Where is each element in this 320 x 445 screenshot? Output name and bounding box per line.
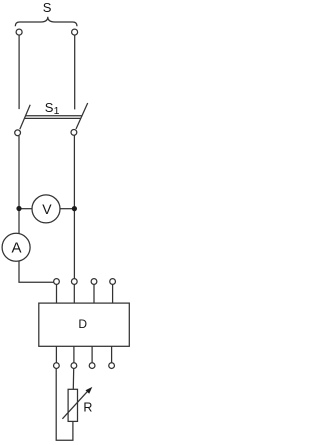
switch S1 mechanical link: [26, 115, 83, 117]
wire left vertical top: [18, 35, 20, 109]
terminal D bottom 2: [71, 363, 77, 369]
ammeter A circle: [2, 233, 30, 261]
switch S1 right pole contact: [71, 130, 77, 136]
wire right vertical top: [74, 35, 76, 109]
wire bottom t1 to rheostat bottom: [56, 368, 73, 440]
box D: [39, 303, 130, 346]
svg-text:S: S: [43, 0, 52, 15]
wire right below switch: [73, 135, 75, 278]
wire t4 to box: [112, 284, 114, 303]
wire box to bottom t1: [55, 346, 57, 363]
terminal D bottom 4: [109, 363, 115, 369]
wire voltmeter branch right: [60, 208, 75, 210]
svg-text:R: R: [83, 401, 92, 415]
switch S1 right pole lever: [76, 103, 88, 129]
wire box to bottom t3: [91, 346, 93, 363]
rheostat arrow shaft: [62, 391, 87, 419]
rheostat arrow head: [86, 387, 93, 394]
terminal D bottom 1: [54, 363, 60, 369]
terminal D bottom 3: [89, 363, 95, 369]
wire below ammeter: [19, 261, 54, 282]
svg-text:1: 1: [54, 105, 60, 117]
svg-text:V: V: [42, 201, 52, 217]
svg-text:S: S: [45, 100, 54, 115]
wire voltmeter branch left: [19, 208, 32, 210]
svg-text:A: A: [12, 239, 22, 256]
wire box to bottom t2: [73, 346, 75, 363]
terminal D top 2: [71, 279, 77, 285]
rheostat R body: [68, 389, 77, 421]
brace S: [15, 17, 77, 26]
svg-text:D: D: [78, 317, 87, 331]
terminal left: [16, 29, 22, 35]
wire box to bottom t4: [111, 346, 113, 363]
junction dot left: [16, 206, 21, 211]
switch S1 left pole lever: [20, 105, 30, 130]
switch S1 left pole contact: [15, 130, 21, 136]
terminal D top 4: [110, 279, 116, 285]
voltmeter V circle: [32, 195, 60, 223]
wire left below switch: [18, 136, 20, 234]
terminal D top 3: [91, 279, 97, 285]
wire t2 to box: [73, 284, 75, 303]
junction dot right: [72, 206, 77, 211]
terminal D top 1: [54, 279, 60, 285]
wire t1 to box: [56, 284, 58, 303]
wire t3 to box: [93, 284, 95, 303]
wire bottom t2 to rheostat top: [72, 368, 74, 389]
terminal right: [72, 29, 78, 35]
